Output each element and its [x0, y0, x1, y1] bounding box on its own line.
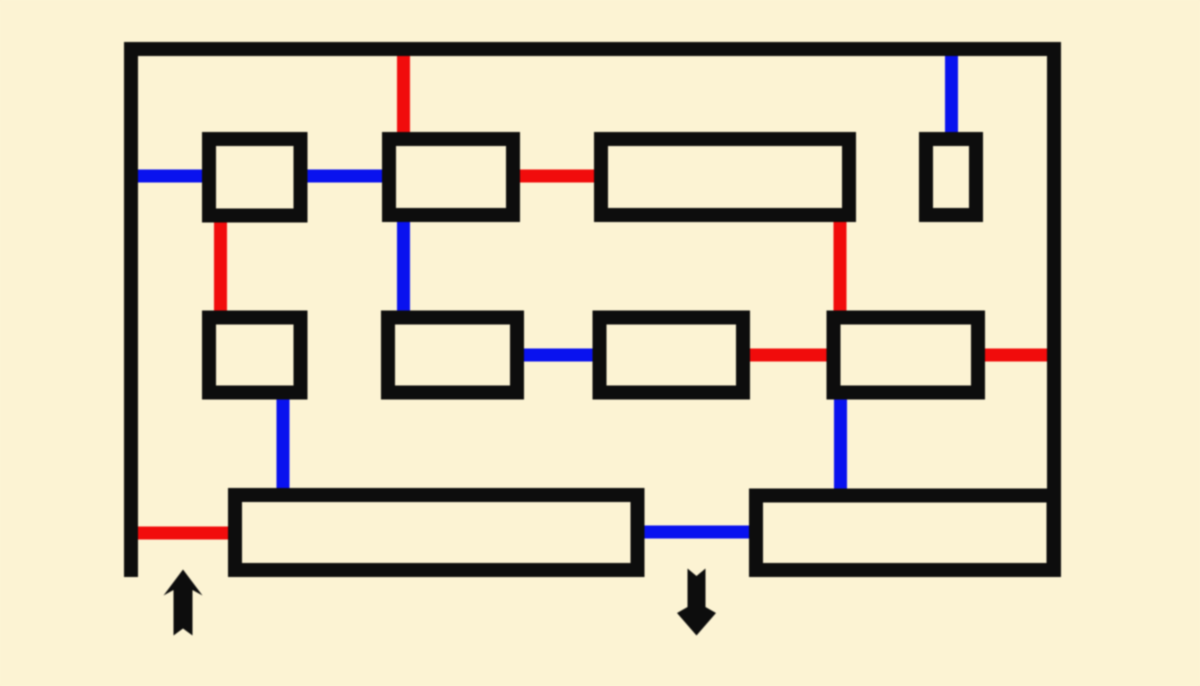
wire red: top border to box B: [397, 49, 410, 137]
box H: [834, 318, 979, 393]
wire red: left border to box I: [131, 527, 232, 540]
outer border: [131, 49, 1054, 577]
box J: [756, 496, 1054, 571]
wire blue: box E to box I: [277, 395, 290, 492]
wire red: box A to box E: [214, 218, 227, 315]
box F: [388, 318, 517, 393]
wire blue: box F to box G: [520, 349, 596, 362]
wire red: box G to box H: [746, 349, 830, 362]
box B: [389, 139, 513, 215]
box C: [601, 139, 849, 215]
wire blue: box A to box B: [303, 170, 385, 183]
wire blue: left border to box A: [131, 170, 205, 183]
box E: [209, 318, 301, 393]
wire red: box B to box C: [516, 170, 598, 183]
box G: [600, 318, 744, 393]
down arrow: [677, 569, 716, 636]
wire blue: box B to box F: [397, 218, 410, 315]
wire blue: box H to box J: [834, 395, 847, 492]
box I: [235, 495, 638, 570]
wire blue: top border to box D: [945, 49, 958, 137]
box A: [209, 139, 301, 216]
wire red: box C to box H: [834, 218, 847, 315]
box D: [926, 139, 976, 215]
up arrow: [164, 570, 203, 636]
wire red: box H to right border: [981, 349, 1051, 362]
wire blue: box I to box J: [640, 526, 753, 539]
